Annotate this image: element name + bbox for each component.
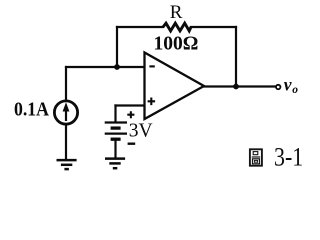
svg-text:3-1: 3-1 — [274, 141, 303, 171]
svg-text:R: R — [170, 2, 183, 23]
svg-text:3V: 3V — [129, 120, 153, 141]
svg-text:v: v — [284, 74, 292, 94]
svg-text:o: o — [292, 84, 298, 96]
svg-text:0.1A: 0.1A — [14, 98, 49, 120]
svg-text:100Ω: 100Ω — [154, 33, 199, 54]
